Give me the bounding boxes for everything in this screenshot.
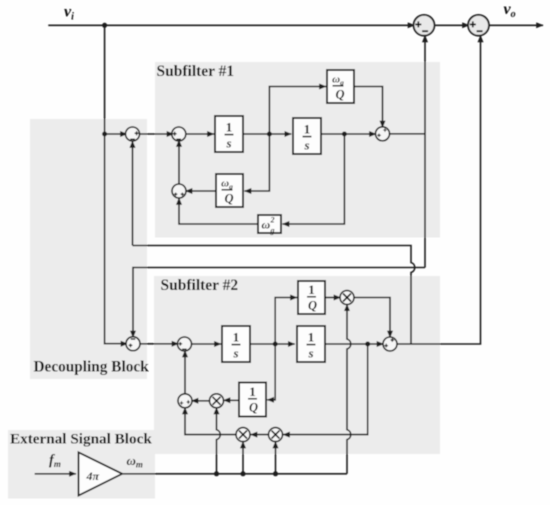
svg-text:1: 1 [308,282,315,297]
wire multiplier J output into sum I [192,400,210,402]
wire integrator3 to integrator4 [250,343,295,345]
svg-text:Q: Q [249,401,258,415]
svg-text:s: s [232,346,238,361]
svg-text:Q: Q [224,192,233,206]
svg-text:Q: Q [308,299,317,313]
svg-text:External Signal Block: External Signal Block [10,431,152,448]
wire S1 to S2 [434,24,469,26]
svg-text:g: g [270,226,275,235]
multiplier L [269,428,283,442]
wire sum B to integrator 1 [186,133,214,135]
wire S2 to vo output [489,24,543,26]
wire multiplier L to multiplier K [251,434,269,436]
node junction at sum A row [102,132,107,137]
wire sum A to sum B [140,133,174,135]
svg-text:1: 1 [233,330,240,345]
svg-text:s: s [303,138,309,153]
node junction wm to L [273,471,278,476]
svg-text:Q: Q [335,88,344,102]
wire node down into wg/Q bottom block [245,134,270,191]
multiplier J [210,394,224,408]
svg-text:Subfilter #1: Subfilter #1 [157,63,235,80]
wire vi top line [48,24,414,26]
svg-text:1: 1 [249,384,256,399]
multiplier K [236,428,250,442]
block integrator 1/s #1 [215,116,243,152]
summing junction S2 [468,15,489,36]
wire feedback line from x411 vertical [133,246,415,345]
svg-text:ω: ω [262,218,271,232]
wire node up into 1/Q top [275,298,297,345]
wire wg2 output into sum C bottom [179,198,258,224]
multiplier G [340,291,354,305]
wire 1/Q top output into multiplier G [325,297,341,299]
wire 1/Q bottom output into multiplier J [224,399,240,401]
block 1/Q top [298,281,325,314]
block wg squared [258,215,281,235]
block 1/Q bottom [239,383,266,417]
wire branch into sum A [105,133,127,135]
wire integrator2 to sum D [321,133,376,135]
wire vi vertical into sum E [105,25,128,343]
summing junction C [172,184,186,198]
wire sum E to sum F [140,343,179,345]
svg-text:1: 1 [304,122,311,137]
wire sum F to integrator 3 [192,343,222,345]
wire wm up into multiplier K bottom [242,442,244,474]
svg-text:s: s [307,346,313,361]
wire integrator1 to integrator2 [243,133,291,135]
wire wg/Q top output into sum D [354,87,383,128]
wire wm line from gain to x347 vertical [122,473,347,475]
node junction wm to K [241,471,246,476]
panel External Signal Block [8,430,155,499]
summing junction A [126,127,140,141]
block integrator 1/s #4 [297,326,325,362]
node junction after integrator3 [273,342,278,347]
wire fm input into gain [35,473,76,475]
summing junction H [383,337,397,351]
wire multiplier G output into sum H top [354,298,390,338]
node junction after integrator2 [342,132,347,137]
svg-text:Subfilter #2: Subfilter #2 [161,277,239,294]
summing junction F [178,337,192,351]
wire wm up into multiplier L bottom [275,442,277,474]
summing junction B [172,127,186,141]
wire sum C output into sum B bottom [178,140,180,184]
wire node down into multiplier L [283,344,368,435]
wire node down into wg2 block [283,134,345,224]
wire node up into wg/Q top block [269,87,326,135]
node junction vi branch [102,23,107,28]
svg-text:2: 2 [270,216,275,225]
wire S1 bottom input from subfilter1 [424,36,426,268]
panel Subfilter #2 [154,276,440,454]
wire integrator4 to sum H [325,343,384,345]
summing junction E [126,337,140,351]
wire subfilter2 output feedback up to sum A bottom [132,141,134,246]
node junction wm to J [214,471,219,476]
block integrator 1/s #3 [222,326,250,362]
summing junction I [178,394,192,408]
summing junction S1 [414,15,435,36]
block integrator 1/s #2 [293,118,321,154]
wire wm up into multiplier J bottom with hop [217,408,221,474]
block wg/Q top [327,70,354,103]
summing junction D [376,127,390,141]
wire wg/Q bottom output into sum C [186,190,217,192]
wire node down into 1/Q bottom [267,344,275,400]
svg-text:Decoupling Block: Decoupling Block [34,359,150,376]
wire x347 vertical up into multiplier G bottom with hops [347,304,351,474]
node junction after integrator1 [267,132,272,137]
wire subfilter1 output feedback to sum E top [133,268,425,338]
panel Decoupling Block [30,119,147,379]
panel Subfilter #1 [155,62,440,238]
wire multiplier K output into sum I bottom [185,408,236,435]
wire sum D output joining vertical to S1 [390,133,426,135]
svg-text:4π: 4π [86,469,100,483]
svg-text:1: 1 [308,330,315,345]
node junction before sum H [365,342,370,347]
wire S2 bottom input from subfilter2 [397,36,481,345]
svg-text:s: s [225,136,231,151]
svg-text:1: 1 [226,120,233,135]
wire sum I output into sum F bottom [184,351,186,394]
block wg/Q bottom [216,174,243,207]
gain block 4pi triangle [79,452,123,495]
